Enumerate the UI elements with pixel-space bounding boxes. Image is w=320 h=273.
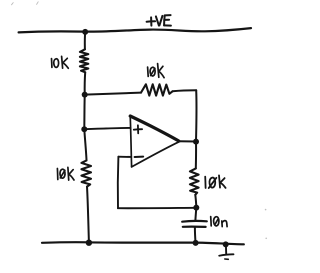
- speck right: [265, 209, 267, 211]
- node ground junction dot: [223, 241, 229, 247]
- wire J3 to R2: [84, 129, 86, 160]
- node J1 junction top: [82, 29, 88, 35]
- wire R4 to J6: [195, 195, 196, 208]
- wire minus stub: [118, 156, 131, 158]
- node J5 output junction: [193, 139, 199, 145]
- ground: [219, 244, 233, 259]
- wire J1 to R1: [84, 33, 86, 50]
- wire R1 to J2: [84, 72, 87, 94]
- capacitor C1: [182, 221, 207, 227]
- label 10k R3: [148, 64, 165, 78]
- wire corner down to J5: [195, 90, 197, 141]
- speck bottom-right: [265, 238, 267, 240]
- label minus input: [135, 156, 144, 158]
- node J7 junction bottom-right: [193, 240, 199, 246]
- wire J2 to R3: [85, 93, 141, 95]
- wire C1 to J7: [194, 228, 197, 243]
- wire J3 to plus input: [84, 128, 130, 129]
- label plus input: [134, 125, 142, 133]
- wire R3 to corner: [173, 90, 197, 91]
- resistor R4 10k: [190, 168, 199, 194]
- wire bottom rail: [42, 242, 244, 244]
- resistor R3 10k feedback: [141, 84, 173, 95]
- resistor R1 10k: [80, 49, 88, 72]
- node J2 junction: [82, 92, 88, 98]
- wire J5 to R4: [195, 142, 197, 169]
- label 10n C1: [211, 217, 227, 227]
- speck top-left 1: [12, 3, 14, 5]
- label 10k R4: [205, 175, 225, 188]
- wire minus to J6: [118, 207, 196, 209]
- wire minus down: [117, 157, 120, 209]
- node J3 junction: [81, 126, 87, 132]
- wire +VE top rail: [19, 28, 251, 32]
- label 10k R1: [52, 56, 69, 68]
- speck top-left 2: [37, 2, 39, 5]
- node J6 junction: [193, 205, 199, 211]
- wire output: [179, 140, 196, 142]
- op-amp U1: [130, 116, 180, 167]
- label 10k R2: [57, 167, 74, 180]
- wire J6 to C1: [194, 208, 197, 221]
- resistor R2 10k: [81, 160, 91, 186]
- label +VE: [147, 15, 171, 26]
- node J4 junction bottom-left: [86, 240, 92, 246]
- wire R2 to J4: [87, 187, 89, 243]
- wire J2 to J3: [83, 95, 85, 129]
